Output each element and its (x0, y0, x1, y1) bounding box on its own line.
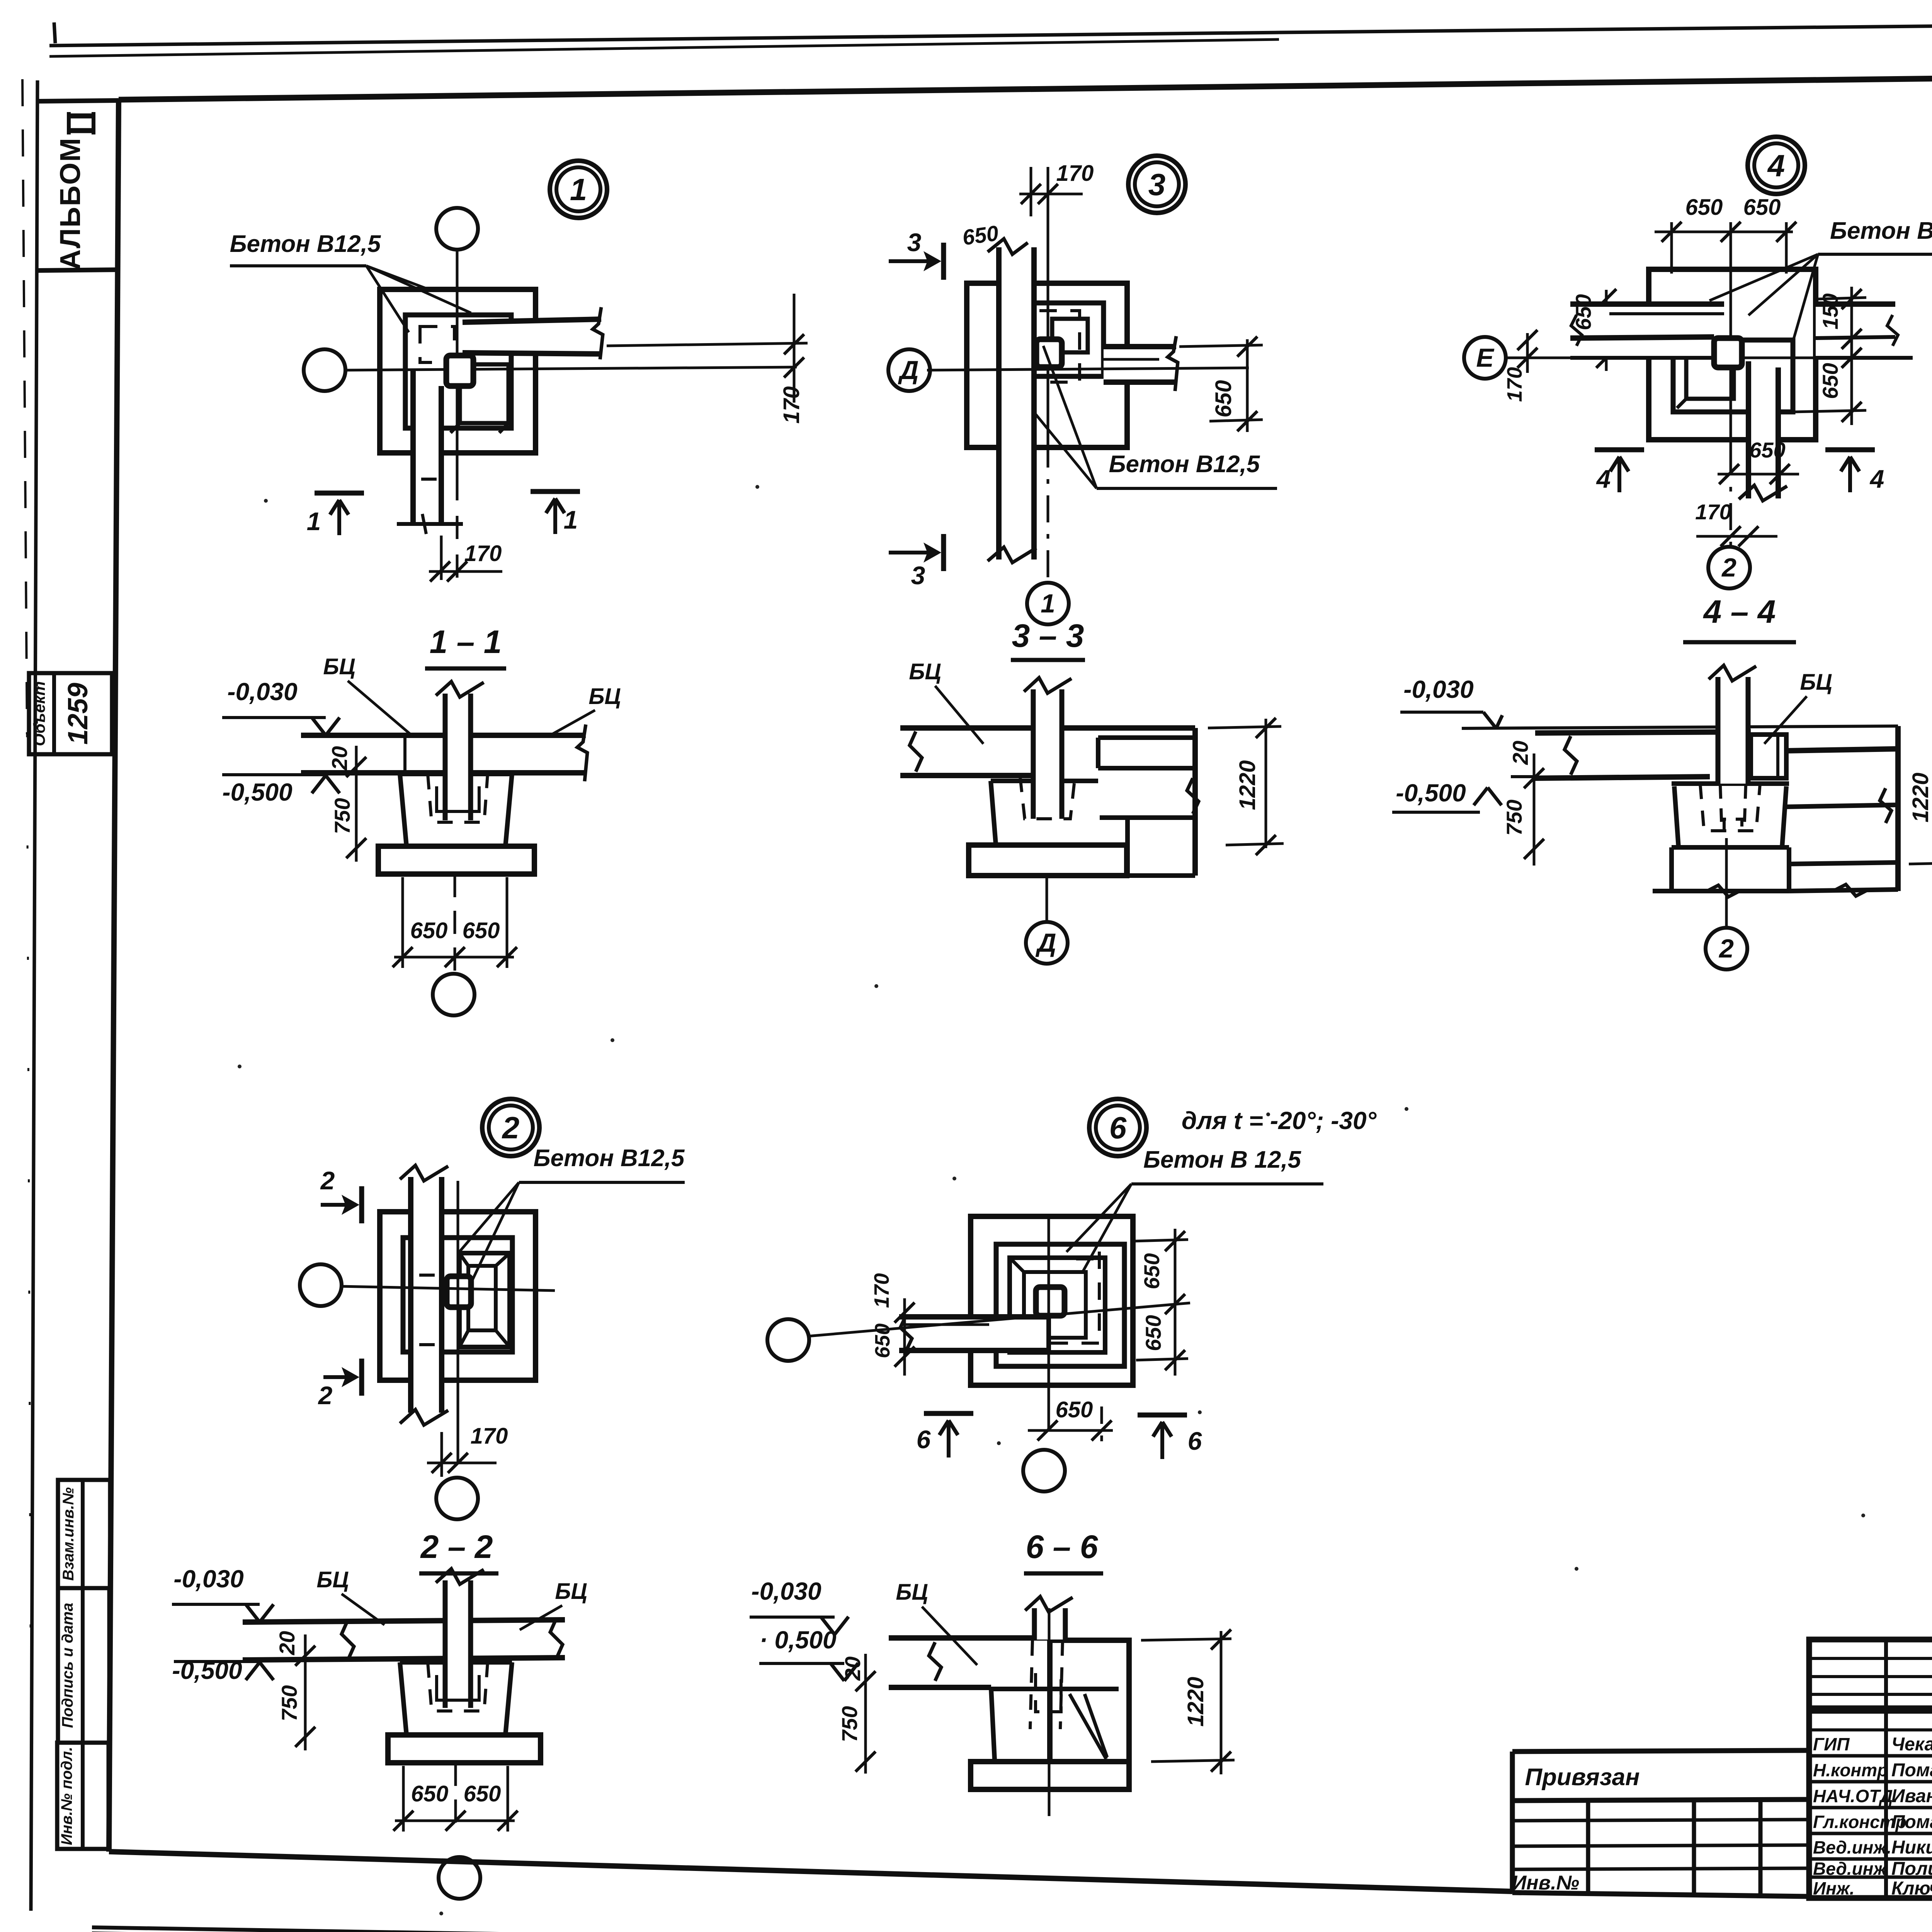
svg-text:Инв.№ подл.: Инв.№ подл. (58, 1747, 75, 1845)
svg-text:-0,030: -0,030 (227, 678, 297, 706)
svg-text:-0,030: -0,030 (173, 1565, 243, 1593)
svg-text:3 – 3: 3 – 3 (1012, 617, 1084, 654)
svg-text:1259: 1259 (63, 683, 94, 745)
svg-text:6: 6 (1188, 1427, 1202, 1455)
svg-text:БЦ: БЦ (1800, 670, 1832, 695)
svg-text:650: 650 (1211, 380, 1236, 418)
svg-text:170: 170 (1695, 500, 1731, 524)
svg-text:для t = -20°; -30°: для t = -20°; -30° (1182, 1107, 1377, 1134)
svg-text:6 – 6: 6 – 6 (1026, 1529, 1099, 1565)
svg-text:-0,500: -0,500 (1396, 779, 1466, 807)
svg-text:650: 650 (1056, 1397, 1093, 1422)
svg-text:1220: 1220 (1183, 1677, 1208, 1726)
svg-text:Взам.инв.№: Взам.инв.№ (60, 1487, 77, 1581)
svg-text:150: 150 (1818, 293, 1842, 329)
svg-text:650: 650 (1571, 294, 1595, 330)
svg-text:20: 20 (840, 1656, 865, 1681)
svg-text:6: 6 (1109, 1111, 1127, 1145)
svg-text:БЦ: БЦ (555, 1579, 587, 1604)
svg-text:Никитина: Никитина (1891, 1837, 1932, 1858)
svg-text:20: 20 (1508, 741, 1532, 765)
svg-text:2: 2 (318, 1381, 333, 1410)
svg-text:Инв.№: Инв.№ (1512, 1872, 1579, 1894)
svg-text:Чекалов: Чекалов (1891, 1734, 1932, 1755)
svg-text:170: 170 (1056, 161, 1094, 186)
svg-text:1220: 1220 (1908, 772, 1932, 822)
svg-text:Иванов: Иванов (1891, 1786, 1932, 1806)
svg-text:Инж.: Инж. (1813, 1878, 1855, 1898)
svg-text:4: 4 (1596, 464, 1611, 493)
svg-text:650: 650 (1685, 195, 1723, 220)
svg-text:650: 650 (411, 1781, 449, 1806)
svg-text:650: 650 (1749, 438, 1785, 462)
svg-text:АЛЬБОМ: АЛЬБОМ (54, 137, 86, 270)
svg-text:БЦ: БЦ (323, 654, 355, 679)
svg-text:Ключникова: Ключникова (1891, 1878, 1932, 1899)
svg-text:Д: Д (898, 355, 918, 385)
svg-text:750: 750 (1502, 799, 1526, 835)
svg-text:-0,030: -0,030 (751, 1577, 821, 1605)
svg-text:170: 170 (471, 1423, 508, 1449)
svg-text:Бетон В 12,5: Бетон В 12,5 (1143, 1146, 1301, 1173)
svg-text:3: 3 (911, 561, 925, 590)
svg-text:2: 2 (502, 1111, 520, 1145)
svg-text:Бетон В 12,5: Бетон В 12,5 (1830, 218, 1932, 244)
svg-text:Вед.инж.: Вед.инж. (1813, 1837, 1891, 1857)
svg-text:650: 650 (463, 918, 500, 943)
svg-text:170: 170 (1503, 367, 1526, 402)
svg-text:170: 170 (779, 386, 804, 424)
svg-text:БЦ: БЦ (316, 1567, 349, 1592)
svg-text:-0,030: -0,030 (1403, 675, 1473, 703)
svg-text:Бетон В12,5: Бетон В12,5 (230, 231, 381, 257)
svg-text:1220: 1220 (1235, 760, 1260, 810)
svg-text:ГИП: ГИП (1813, 1734, 1850, 1754)
svg-text:3: 3 (1148, 167, 1166, 202)
svg-text:Объект: Объект (30, 681, 48, 746)
svg-text:1: 1 (564, 505, 578, 534)
svg-text:650: 650 (961, 221, 1000, 250)
svg-text:-0,500: -0,500 (172, 1656, 242, 1684)
svg-text:170: 170 (464, 541, 502, 566)
svg-text:Н.контр: Н.контр (1813, 1760, 1888, 1780)
svg-text:650: 650 (1818, 363, 1842, 399)
svg-text:4: 4 (1767, 148, 1785, 183)
svg-text:Е: Е (1476, 343, 1495, 372)
svg-text:170: 170 (870, 1273, 893, 1308)
svg-text:3: 3 (907, 228, 922, 257)
svg-text:750: 750 (277, 1685, 301, 1721)
svg-text:1: 1 (1041, 589, 1055, 618)
svg-text:Поликарпова: Поликарпова (1891, 1859, 1932, 1879)
svg-text:Бетон В12,5: Бетон В12,5 (1109, 451, 1260, 478)
svg-text:650: 650 (1743, 195, 1781, 220)
svg-text:2: 2 (320, 1166, 335, 1195)
svg-text:Д: Д (1035, 928, 1056, 957)
svg-text:Помазов: Помазов (1891, 1812, 1932, 1832)
svg-text:20: 20 (327, 746, 352, 770)
svg-text:БЦ: БЦ (909, 659, 941, 684)
svg-text:20: 20 (275, 1631, 299, 1655)
svg-text:650: 650 (1141, 1315, 1165, 1351)
svg-text:Подпись и дата: Подпись и дата (59, 1603, 76, 1728)
svg-text:· 0,500: · 0,500 (759, 1626, 836, 1654)
svg-text:1 – 1: 1 – 1 (430, 624, 502, 660)
svg-text:Привязан: Привязан (1525, 1764, 1639, 1791)
svg-text:4 – 4: 4 – 4 (1703, 594, 1776, 630)
svg-text:-0,500: -0,500 (222, 778, 292, 806)
svg-text:6: 6 (917, 1425, 931, 1454)
svg-text:650: 650 (464, 1781, 501, 1806)
svg-text:НАЧ.ОТД.: НАЧ.ОТД. (1813, 1786, 1898, 1806)
svg-text:650: 650 (410, 918, 448, 943)
svg-text:2: 2 (1721, 553, 1736, 582)
svg-text:БЦ: БЦ (896, 1580, 928, 1605)
svg-text:Помазов: Помазов (1891, 1760, 1932, 1781)
svg-text:650: 650 (871, 1323, 894, 1358)
svg-text:1: 1 (570, 172, 587, 207)
svg-text:Вед.инж: Вед.инж (1813, 1859, 1887, 1879)
svg-text:БЦ: БЦ (588, 684, 621, 709)
svg-text:750: 750 (837, 1706, 862, 1742)
svg-text:1: 1 (307, 507, 321, 536)
svg-text:4: 4 (1869, 464, 1884, 493)
svg-text:2 – 2: 2 – 2 (420, 1529, 493, 1565)
svg-text:2: 2 (1718, 934, 1734, 963)
svg-text:650: 650 (1139, 1253, 1164, 1289)
svg-text:Бетон В12,5: Бетон В12,5 (534, 1145, 685, 1172)
svg-text:750: 750 (330, 798, 354, 834)
